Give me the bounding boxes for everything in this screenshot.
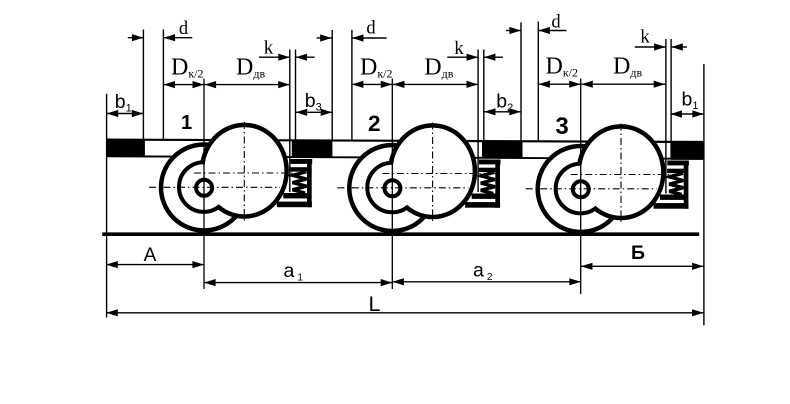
dimension Ddv unit 1 [205,84,290,86]
unit3 belt gap line left [665,39,667,194]
dimension d unit 2 [317,37,332,39]
dimension Dk/2 unit 2 [352,83,392,85]
motor 1 mount spring rail [290,167,308,171]
roller 2 outer circle [349,145,435,231]
dimension k unit 1 [259,56,290,58]
motor 3 horizontal center line [571,174,687,176]
roller 2 hub [384,180,400,196]
svg-text:Dдв: Dдв [613,54,642,80]
dimension d unit 3 [506,30,521,32]
left outer extension line [106,94,108,318]
unit2 belt gap line left [477,50,479,193]
svg-text:Dдв: Dдв [424,55,453,81]
roller 3 horizontal center line [526,188,657,190]
motor 3 mount top bar [667,161,689,166]
roller 1 vertical center line [203,79,205,290]
svg-text:Dк/2: Dк/2 [360,55,393,81]
motor 2 housing fill overlap [393,128,473,215]
motor 3 mount lower bar [660,195,685,200]
svg-text:A: A [144,245,157,266]
svg-text:k: k [640,27,650,48]
unit1 shaft left line [142,30,144,141]
svg-text:Б: Б [631,242,645,264]
motor 3 spring [669,173,683,194]
svg-text:b1: b1 [682,89,699,113]
svg-text:L: L [369,292,381,316]
dimension k unit 2 [447,56,478,58]
svg-text:2: 2 [368,111,381,136]
right outer extension line [703,64,705,325]
motor 1 mount bottom bar [277,202,312,208]
roller 2 vertical center line [391,79,393,290]
svg-text:d: d [179,19,189,39]
motor 2 mount lower bar [472,194,497,199]
dimension b1 right [671,113,704,115]
belt black segment between unit 1 and 2 [292,140,333,157]
dimension Dk/2 unit 3 [538,83,580,85]
dimension Dk/2 unit 1 [164,84,205,86]
unit3 Dk/2 line [537,22,539,142]
svg-text:Dк/2: Dк/2 [171,55,204,81]
motor 1 horizontal center line [194,172,310,174]
motor 3 mount bottom bar [654,203,689,209]
belt black segment between unit 2 and 3 [482,141,523,158]
motor 3 mount right wall [684,161,689,209]
dimension a2 [392,281,580,283]
dimension L [106,312,703,314]
svg-text:1: 1 [181,112,192,134]
ground line [102,232,699,236]
motor 3 housing fill overlap [581,129,661,216]
motor 2 mount spring rail [479,168,497,172]
motor 2 vertical center line [432,123,434,223]
motor 1 mount lower bar [283,193,308,198]
roller 3 hub [573,181,589,197]
dimension A [106,264,204,266]
dimension k unit 3 [635,46,666,48]
belt black segment left [107,139,145,156]
dimension a1 [204,282,392,284]
unit3 shaft left line [520,22,522,141]
svg-text:3: 3 [555,113,568,140]
motor 2 housing [390,125,475,217]
dimension b2 [484,111,521,113]
motor 1 housing [202,125,287,217]
motor 1 mount right wall [307,159,312,207]
motor 2 mount bottom bar [465,202,500,208]
motor 1 mount top bar [291,159,313,164]
motor 2 mount right wall [495,160,500,208]
dimension B (Cyrillic Be) [581,265,704,267]
motor 1 housing fill overlap [204,127,284,214]
svg-text:Dдв: Dдв [236,55,265,81]
roller 2 rim circle [367,163,417,213]
motor 3 mount spring rail [667,169,685,173]
unit2 belt gap line right [483,50,485,158]
unit1 Dk/2 line [162,30,164,141]
unit1 belt gap line left [289,50,291,193]
svg-text:a1: a1 [284,260,304,284]
unit2 shaft left line [331,30,333,141]
unit1 belt gap line right [295,50,297,158]
svg-text:d: d [551,12,561,32]
dimension b3 [296,111,333,113]
svg-text:k: k [454,38,464,59]
roller 1 outer circle [161,145,247,231]
svg-text:Dк/2: Dк/2 [546,54,579,80]
roller 3 rim circle [556,164,606,214]
motor 2 horizontal center line [382,173,498,175]
roller 1 hub [196,180,212,196]
dimension Ddv unit 3 [581,83,665,85]
dimension d unit 1 [128,37,144,39]
svg-text:b2: b2 [496,91,513,115]
motor 1 vertical center line [243,122,245,222]
roller 1 horizontal center line [149,186,280,188]
unit3 belt gap line right [670,39,672,159]
motor 3 vertical center line [620,124,622,224]
unit2 Dk/2 line [351,30,353,141]
roller 3 vertical center line [580,79,582,295]
motor 1 spring [293,172,307,193]
svg-text:a2: a2 [473,259,493,283]
motor 3 housing [579,126,664,218]
dimension Ddv unit 2 [393,83,478,85]
motor 2 mount top bar [479,160,501,165]
belt top line [107,140,705,142]
belt bottom line [107,156,705,159]
roller 1 rim circle [179,162,229,212]
svg-text:k: k [264,38,274,59]
motor 2 spring [481,172,495,193]
svg-text:b3: b3 [305,90,322,114]
svg-text:d: d [366,19,376,39]
roller 2 horizontal center line [337,187,468,189]
roller 3 outer circle [538,146,624,232]
svg-text:b1: b1 [115,91,132,115]
dimension b1 left [107,113,144,115]
belt black segment right [671,143,704,160]
